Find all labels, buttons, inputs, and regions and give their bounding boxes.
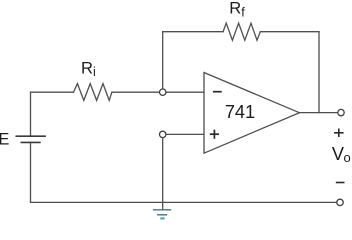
node B noninverting input terminal (160, 131, 166, 137)
wire output from op-amp apex to terminal (299, 112, 337, 114)
svg-text:Ri: Ri (81, 58, 96, 79)
ground (153, 210, 171, 219)
wire node A up to feedback (162, 32, 164, 89)
wire left vertical from input to battery top (30, 92, 32, 136)
resistor Rf (223, 23, 260, 40)
op-amp minus sign (213, 91, 222, 93)
battery E plates (16, 136, 46, 142)
svg-text:Rf: Rf (229, 0, 245, 20)
wire feedback top right (260, 31, 319, 33)
wire input horizontal to Ri (31, 91, 74, 93)
bottom right terminal circle (337, 199, 343, 205)
wire noninverting node to op-amp + input (166, 133, 204, 135)
svg-text:741: 741 (225, 102, 255, 122)
resistor Ri (74, 84, 112, 101)
wire Ri to inverting node (112, 91, 160, 93)
wire feedback top left (163, 31, 223, 33)
op-amp plus sign (210, 130, 219, 139)
wire noninverting node down to ground (162, 138, 164, 209)
wire node A to op-amp inverting input (166, 91, 204, 93)
wire bottom horizontal (31, 201, 337, 203)
op-amp U1 triangle (204, 73, 299, 154)
wire feedback down to output (318, 32, 320, 113)
svg-text:Vo: Vo (332, 144, 351, 165)
output plus sign (334, 129, 344, 138)
node A inverting input terminal (160, 89, 166, 95)
output minus sign (336, 182, 345, 184)
svg-text:E: E (0, 130, 10, 148)
wire battery bottom down (30, 142, 32, 202)
output terminal circle (338, 109, 344, 115)
